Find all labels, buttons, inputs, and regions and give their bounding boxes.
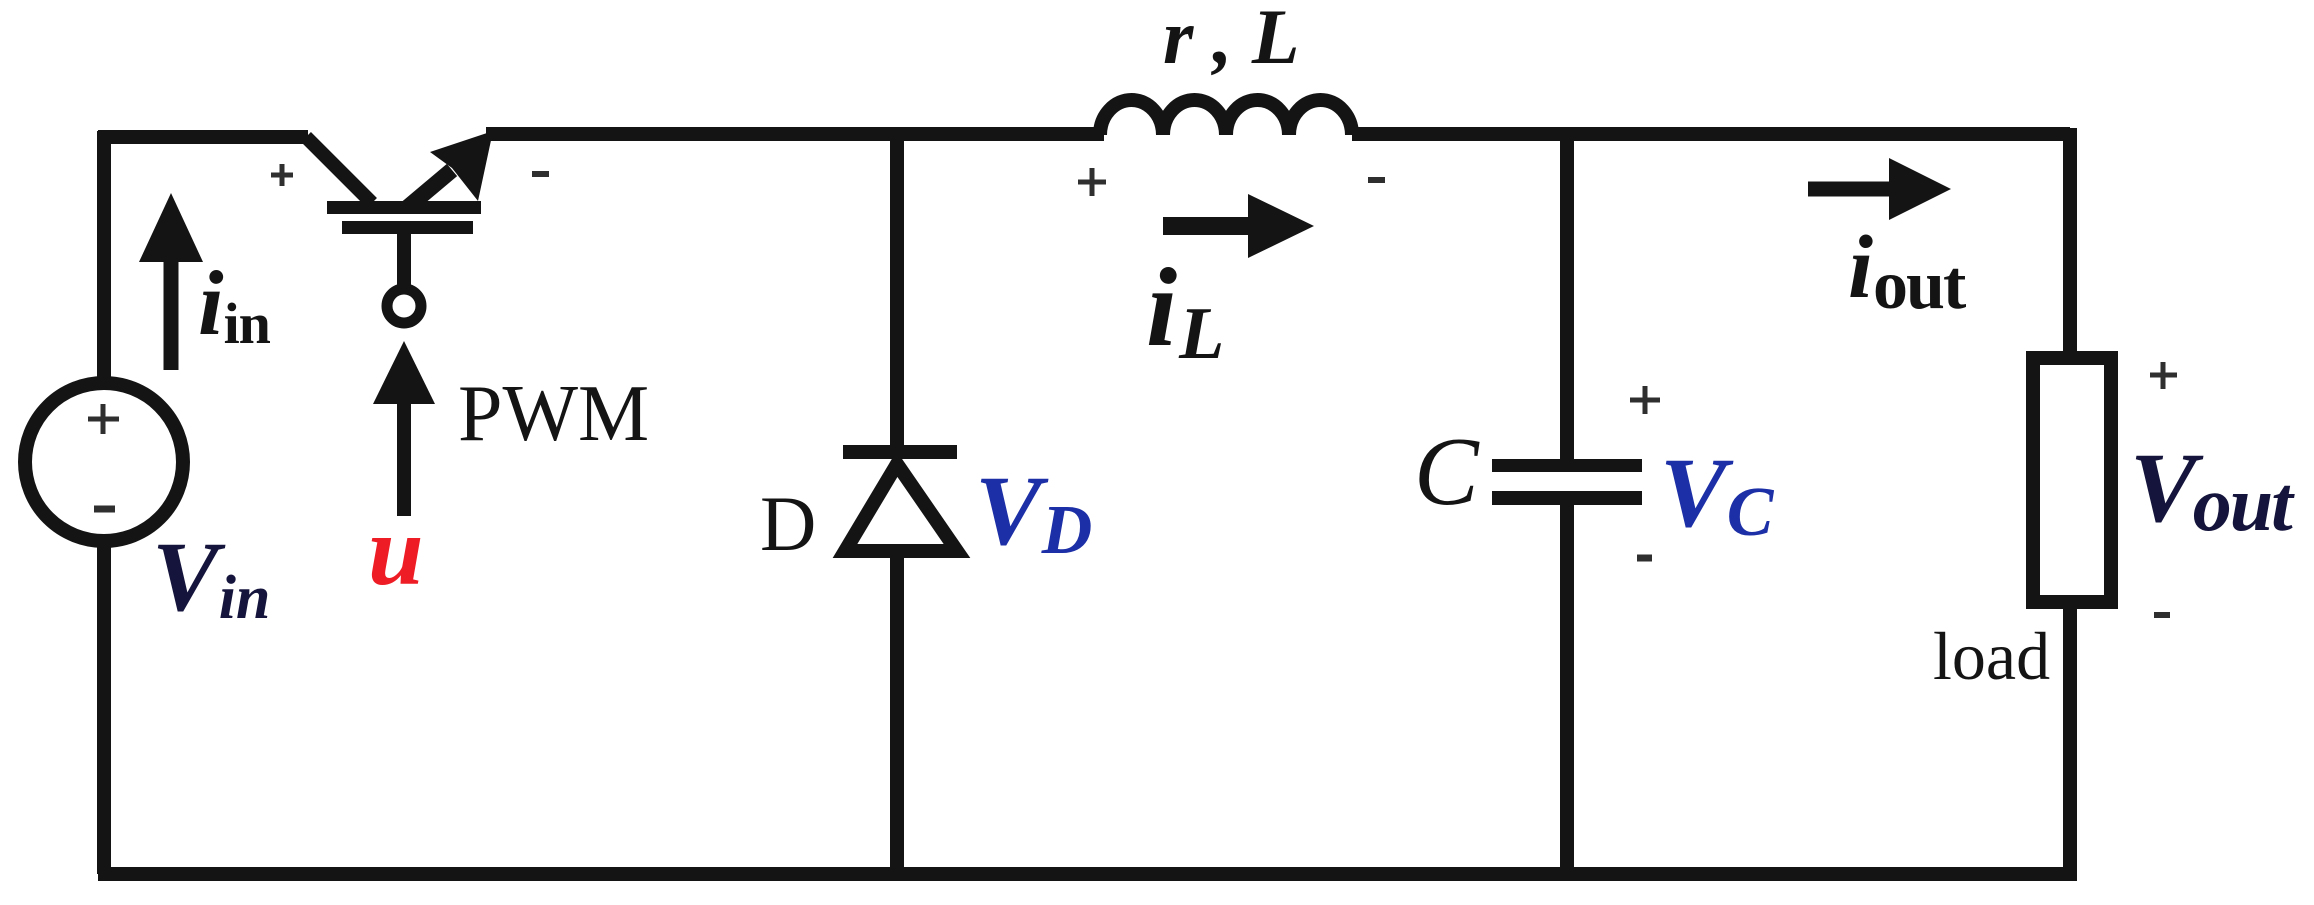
- wire top-left horizontal: [98, 130, 308, 144]
- label PWM: [458, 370, 649, 458]
- label C: [1414, 418, 1480, 525]
- label - right of inductor: [1368, 177, 1385, 183]
- resistor load: [2033, 358, 2111, 602]
- label + right of load: [2150, 362, 2177, 389]
- label r,L: [1163, 0, 1300, 80]
- svg-text:load: load: [1933, 618, 2050, 694]
- label load: [1933, 618, 2050, 694]
- wire left vertical upper: [97, 131, 111, 384]
- label VD: [975, 455, 1092, 569]
- svg-text:r , L: r , L: [1163, 0, 1300, 80]
- label iL: [1146, 246, 1224, 375]
- label - at transistor right: [532, 171, 549, 177]
- current arrow iin: [139, 193, 203, 370]
- label u (red): [368, 495, 424, 606]
- wire capacitor bottom lead: [1560, 505, 1574, 874]
- current arrow iL: [1163, 194, 1314, 258]
- wire top middle (transistor to inductor): [486, 127, 1104, 141]
- transistor Q1 (switch): [306, 131, 493, 234]
- label iin: [198, 252, 271, 356]
- label Vout: [2130, 432, 2295, 547]
- wire left vertical lower: [97, 539, 111, 874]
- capacitor C: [1492, 459, 1642, 505]
- wire capacitor top lead: [1560, 134, 1574, 459]
- voltage source Vin: [25, 383, 183, 541]
- label + at transistor left: [271, 164, 293, 186]
- label VC: [1660, 437, 1775, 551]
- wire top right (inductor to right corner): [1352, 127, 2070, 141]
- label Vin: [152, 521, 270, 632]
- wire right vertical lower: [2063, 604, 2077, 874]
- label D: [760, 480, 816, 567]
- label + above VC: [1630, 386, 1660, 414]
- node switch-diode junction: [890, 134, 904, 447]
- transistor gate lead and terminal circle: [387, 234, 421, 323]
- svg-text:C: C: [1414, 418, 1480, 525]
- label iout: [1848, 218, 1966, 324]
- label + left of inductor: [1078, 168, 1106, 196]
- wire diode anode to bottom: [890, 556, 904, 874]
- diode D: [843, 445, 957, 551]
- svg-text:D: D: [760, 480, 816, 567]
- label - right of load: [2154, 612, 2170, 618]
- inductor r,L: [1100, 100, 1352, 135]
- svg-text:PWM: PWM: [458, 370, 649, 458]
- svg-text:u: u: [368, 495, 424, 606]
- wire right vertical upper: [2063, 128, 2077, 356]
- current arrow iout: [1808, 158, 1951, 220]
- label - below VC: [1637, 555, 1652, 562]
- PWM arrow: [373, 341, 435, 516]
- wire bottom horizontal: [98, 867, 2077, 881]
